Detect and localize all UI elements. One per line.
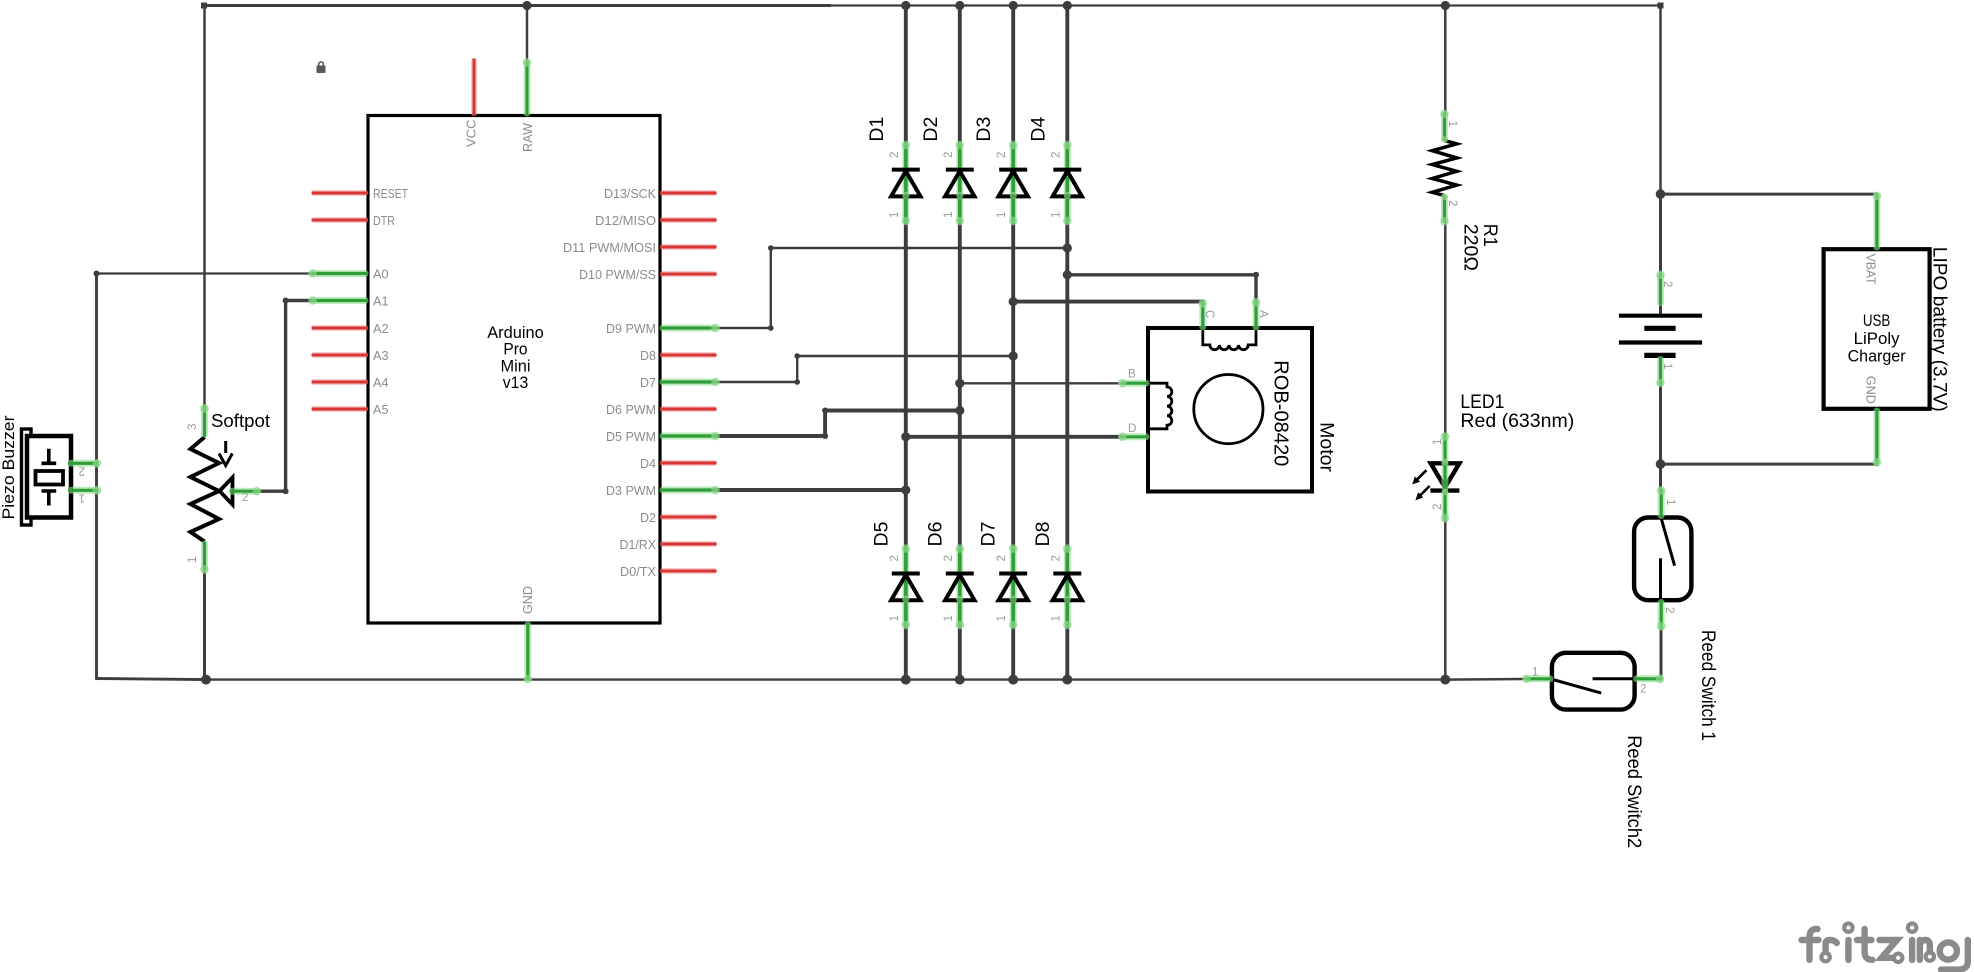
wire motor pin C from D3 column (1013, 300, 1203, 304)
svg-text:D6: D6 (924, 522, 946, 547)
junction motor C on D3 column (1009, 297, 1018, 306)
junction battery VBAT branch (1656, 189, 1666, 199)
svg-text:2: 2 (996, 555, 1008, 561)
svg-text:1: 1 (996, 212, 1008, 218)
svg-text:1: 1 (996, 615, 1008, 621)
svg-text:1: 1 (1432, 439, 1444, 445)
wire D3 PWM to D1 column (717, 488, 906, 492)
pin D5 PWM (660, 432, 720, 441)
wire bottom ground bus (206, 678, 1445, 680)
pin 1 of reed switch2 (1522, 675, 1552, 684)
junction RAW on top bus (522, 1, 531, 10)
node top-left corner (201, 3, 207, 9)
svg-text:1: 1 (889, 615, 901, 621)
svg-text:D4: D4 (640, 456, 656, 471)
pin VBAT of charger (1873, 192, 1882, 250)
junction D3 top bus (1009, 1, 1018, 10)
pin A4 (312, 379, 368, 385)
svg-text:D6 PWM: D6 PWM (606, 402, 656, 417)
wire junction down to battery pin 2 (1659, 194, 1662, 274)
svg-text:220Ω: 220Ω (1460, 224, 1482, 271)
pin D6 PWM (660, 406, 717, 412)
svg-text:A2: A2 (373, 321, 389, 336)
svg-text:VCC: VCC (464, 120, 479, 148)
wire top bus right corner down to battery (1659, 6, 1662, 195)
diode D5 (870, 521, 920, 629)
junction D2 top bus (955, 1, 964, 10)
svg-text:Reed Switch2: Reed Switch2 (1623, 735, 1645, 848)
svg-text:1: 1 (1532, 667, 1538, 679)
svg-text:2: 2 (943, 555, 955, 561)
junction D3 PWM net on D1 column (901, 485, 910, 494)
svg-text:LIPO battery (3.7V): LIPO battery (3.7V) (1929, 247, 1951, 412)
wire Softpot pin1 to ground bus (203, 571, 206, 680)
svg-text:A4: A4 (373, 375, 389, 390)
svg-text:ROB-08420: ROB-08420 (1270, 360, 1292, 466)
piezo element top electrode (42, 449, 57, 464)
pin 2 of battery (1656, 271, 1665, 305)
piezo element crystal (36, 471, 64, 485)
svg-text:A0: A0 (373, 266, 389, 281)
node D5 wire corner bottom (822, 433, 828, 439)
pin 2 of softpot (230, 487, 261, 496)
svg-text:1: 1 (1446, 121, 1458, 127)
svg-text:D13/SCK: D13/SCK (604, 186, 656, 201)
pin A0 (308, 269, 368, 278)
junction D3 bottom bus (1008, 675, 1018, 685)
node A1 wire corner lower (283, 488, 289, 494)
junction motor A on D4 column (1063, 270, 1072, 279)
pin 2 of piezo (68, 459, 101, 468)
svg-text:2: 2 (1432, 504, 1444, 510)
motor rotor circle (1194, 375, 1263, 444)
wire top power bus (204, 4, 830, 7)
wire ground junction to charger GND (1661, 463, 1877, 466)
svg-text:D0/TX: D0/TX (620, 564, 656, 579)
wire Reed Switch 1 pin 2 down to Reed Switch2 pin 2 (1660, 627, 1663, 679)
fritzing watermark letter g (1940, 942, 1957, 959)
svg-text:A3: A3 (373, 348, 389, 363)
node D9 wire corner top (768, 245, 774, 251)
svg-text:D3 PWM: D3 PWM (606, 483, 656, 498)
charger title USB LiPoly Charger (1848, 312, 1906, 366)
wire battery plus to charger VBAT (1661, 193, 1877, 196)
node D5 wire corner top (822, 408, 828, 414)
pin C of motor (1199, 299, 1208, 330)
svg-text:Charger: Charger (1848, 348, 1906, 366)
svg-text:D9 PWM: D9 PWM (606, 321, 656, 336)
pin D11 PWM/MOSI (660, 244, 717, 250)
fritzing watermark letter r (1826, 940, 1837, 952)
node D9 wire corner bottom (768, 325, 774, 331)
pin RAW (523, 58, 532, 115)
reed switch 1 blade (1661, 518, 1674, 565)
piezo buzzer PZ1 disc plate (22, 429, 32, 525)
diode D4 (1027, 117, 1082, 226)
LED1 triangle (1431, 463, 1460, 487)
wire diode D2 vertical column (958, 6, 962, 680)
svg-text:1: 1 (943, 615, 955, 621)
junction D9 net on D4 column (1063, 243, 1072, 252)
wire A1 from Softpot pin 2 (259, 301, 312, 492)
wire LED1 to ground bus (1444, 518, 1447, 680)
battery plate short upper (1644, 326, 1675, 331)
Arduino Pro Mini U1 body (368, 116, 660, 624)
LED emission arrow upper (1412, 470, 1426, 484)
wire diode D4 vertical column (1065, 6, 1069, 680)
pin D7 (660, 378, 720, 387)
svg-text:1: 1 (1050, 615, 1062, 621)
pin 1 of LED1 (1441, 432, 1450, 490)
junction D1 bottom bus (901, 675, 911, 685)
diode D2 (920, 117, 975, 226)
svg-text:D7: D7 (640, 375, 656, 390)
pin 1 of reed switch 1 (1657, 486, 1666, 517)
svg-text:1: 1 (943, 212, 955, 218)
reed switch 1 contact (1659, 558, 1662, 600)
battery plate long bottom (1619, 340, 1702, 344)
wire motor pin D from D1 column (906, 435, 1121, 439)
fritzing watermark letter i dot1 (1844, 924, 1852, 932)
fritzing watermark letter n (1920, 940, 1930, 960)
pin 1 of battery (1656, 358, 1665, 388)
svg-text:2: 2 (1050, 555, 1062, 561)
wire D5 PWM to D2 column (717, 411, 960, 437)
pin 1 of R1 (1440, 110, 1449, 143)
svg-text:D2: D2 (920, 117, 942, 142)
junction R1 on top bus (1441, 1, 1450, 10)
wire junction down to Reed Switch 1 pin 1 (1659, 464, 1662, 489)
fritzing watermark letter z (1880, 940, 1898, 958)
wire RAW drop from bus (526, 6, 529, 62)
diode D1 (866, 117, 921, 226)
svg-text:A5: A5 (373, 402, 389, 417)
junction D2 bottom bus (955, 675, 965, 685)
junction Softpot ground (201, 675, 211, 685)
svg-text:C: C (1203, 310, 1215, 318)
svg-text:2: 2 (996, 152, 1008, 158)
junction D7 net on D3 column (1009, 351, 1018, 360)
fritzing watermark letter i dot2 (1908, 924, 1916, 932)
svg-text:GND: GND (1864, 376, 1879, 404)
pin 1 of softpot (200, 542, 209, 574)
pin D8 (660, 352, 717, 358)
softpot wiper triangle (220, 478, 233, 505)
wire motor pin B from D2 column (960, 382, 1121, 384)
node D7 wire corner top (794, 353, 800, 359)
node A0 wire corner (94, 271, 100, 277)
wire battery pin 1 down to ground junction (1659, 384, 1662, 464)
diode D7 (978, 522, 1028, 630)
pin A2 (312, 325, 368, 331)
pin D1/RX (660, 541, 717, 547)
svg-text:2: 2 (1663, 607, 1675, 613)
node D7 wire corner bottom (794, 379, 800, 385)
junction battery minus / charger GND (1656, 459, 1666, 469)
wire battery pin2 stub (1659, 305, 1662, 316)
svg-text:2: 2 (242, 492, 248, 504)
svg-text:D11 PWM/MOSI: D11 PWM/MOSI (563, 240, 656, 255)
motor top coil (1203, 328, 1256, 350)
svg-text:D1: D1 (866, 117, 888, 142)
pin A5 (312, 406, 368, 412)
reed switch2 blade (1553, 680, 1602, 694)
svg-text:A: A (1257, 310, 1269, 318)
pin D4 (660, 460, 717, 466)
pin 1 of piezo (68, 486, 101, 495)
reed switch 1 body (1634, 518, 1691, 601)
node top-right corner (1658, 3, 1664, 9)
piezo element bottom electrode (42, 491, 57, 506)
svg-text:D8: D8 (1032, 522, 1054, 547)
svg-text:3: 3 (187, 424, 199, 430)
node motor A wire corner (1253, 272, 1259, 278)
pin D9 PWM (660, 324, 720, 333)
LED1 cathode bar (1430, 488, 1459, 492)
lock icon (317, 62, 326, 73)
wire piezo bottom to ground junction (97, 679, 207, 680)
svg-text:VBAT: VBAT (1864, 254, 1879, 285)
pin A of motor (1252, 298, 1261, 330)
svg-text:D10 PWM/SS: D10 PWM/SS (579, 267, 656, 282)
svg-text:Reed Switch 1: Reed Switch 1 (1697, 630, 1719, 741)
fritzing watermark letter f (1802, 929, 1819, 960)
svg-text:2: 2 (1446, 200, 1458, 206)
pin A3 (312, 352, 368, 358)
pin GND (524, 623, 533, 683)
svg-text:D7: D7 (978, 522, 1000, 547)
svg-text:D4: D4 (1027, 117, 1049, 142)
svg-text:LiPoly: LiPoly (1854, 330, 1901, 348)
fritzing watermark letter t (1857, 929, 1872, 960)
pin 2 of LED1 (1441, 489, 1450, 523)
svg-text:D: D (1128, 423, 1136, 435)
pin D10 PWM/SS (660, 271, 717, 277)
svg-text:2: 2 (1050, 152, 1062, 158)
pin D13/SCK (660, 190, 717, 196)
USB LiPoly charger U2 body (1824, 249, 1930, 409)
pin 2 of reed switch2 (1635, 675, 1665, 684)
svg-text:D5 PWM: D5 PWM (606, 429, 656, 444)
wire left vertical from bus to Softpot pin 3 (203, 6, 206, 407)
svg-text:Red (633nm): Red (633nm) (1460, 410, 1574, 432)
svg-text:1: 1 (1664, 499, 1676, 505)
svg-text:Motor: Motor (1316, 422, 1338, 472)
pin D2 (660, 514, 717, 520)
reed switch2 body (1552, 653, 1635, 710)
svg-text:2: 2 (943, 152, 955, 158)
pin D3 PWM (660, 486, 720, 495)
svg-text:RESET: RESET (373, 186, 408, 201)
svg-text:A1: A1 (373, 293, 389, 308)
svg-text:v13: v13 (503, 373, 529, 392)
svg-text:Softpot: Softpot (211, 411, 270, 431)
LED emission arrow lower (1415, 486, 1429, 500)
svg-text:1: 1 (187, 557, 199, 563)
svg-text:D5: D5 (870, 521, 892, 546)
svg-text:1: 1 (1050, 212, 1062, 218)
softpot wiper arrow (219, 441, 232, 466)
pin D12/MISO (660, 217, 717, 223)
svg-text:2: 2 (79, 465, 85, 477)
svg-text:2: 2 (889, 555, 901, 561)
svg-text:D1/RX: D1/RX (620, 537, 657, 552)
svg-text:Piezo Buzzer: Piezo Buzzer (0, 415, 18, 519)
svg-text:B: B (1128, 369, 1136, 381)
svg-text:D3: D3 (973, 117, 995, 142)
svg-text:D8: D8 (640, 348, 656, 363)
battery BT1 plate long top (1619, 314, 1702, 318)
wire motor pin A from D4 column (1067, 275, 1256, 301)
svg-text:DTR: DTR (373, 213, 395, 228)
svg-text:1: 1 (889, 212, 901, 218)
svg-text:D12/MISO: D12/MISO (595, 213, 656, 228)
svg-text:2: 2 (1640, 684, 1646, 696)
pin B of motor (1118, 379, 1148, 388)
junction D1 top bus (901, 1, 910, 10)
svg-text:GND: GND (520, 586, 535, 614)
wire D9 PWM to D4 column (717, 248, 1068, 328)
wire R1 drop from top bus (1444, 6, 1447, 114)
reed switch2 contact (1593, 677, 1635, 680)
motor M1 body ROB-08420 (1148, 328, 1312, 492)
svg-text:2: 2 (1661, 281, 1673, 287)
pin D of motor (1118, 433, 1148, 442)
wire diode D3 vertical column (1011, 6, 1015, 680)
pin VCC (471, 59, 477, 116)
pin 2 of reed switch 1 (1657, 600, 1666, 630)
resistor R1 zigzag (1432, 140, 1457, 195)
diode D8 (1032, 522, 1082, 630)
diode D3 (973, 117, 1028, 226)
junction D5 net on D2 column (955, 406, 964, 415)
wire A0 horizontal (97, 272, 312, 274)
junction D4 top bus (1063, 1, 1072, 10)
svg-text:RAW: RAW (520, 122, 535, 152)
pin 2 of R1 (1440, 193, 1449, 225)
part title Arduino Pro Mini v13 (487, 323, 544, 392)
piezo buzzer body (27, 436, 71, 518)
battery plate short lower (1644, 353, 1675, 358)
svg-text:USB: USB (1863, 312, 1891, 330)
junction LED on bottom bus (1440, 675, 1450, 685)
motor left coil (1148, 383, 1172, 429)
svg-text:1: 1 (79, 492, 85, 504)
junction motor D on D1 column (901, 432, 910, 441)
pin DTR (312, 217, 368, 223)
svg-text:D2: D2 (640, 510, 656, 525)
pin GND of charger (1873, 409, 1882, 467)
wire piezo vertical (95, 274, 98, 679)
pin D0/TX (660, 568, 717, 574)
wire ground bus to Reed Switch2 pin 1 (1445, 678, 1525, 681)
node A1 wire corner upper (283, 298, 289, 304)
pin 3 of softpot (200, 404, 209, 437)
diode D6 (924, 522, 974, 630)
junction D4 bottom bus (1062, 675, 1072, 685)
pin A1 (308, 296, 368, 305)
wire R1 to LED1 (1444, 222, 1447, 436)
wire D7 to D3 column (717, 356, 1014, 382)
softpot RV1 resistive element zigzag (191, 437, 220, 541)
junction motor B on D2 column (955, 379, 964, 388)
pin RESET (312, 190, 368, 196)
svg-text:1: 1 (1661, 363, 1673, 369)
wire diode D1 vertical column (904, 6, 908, 680)
svg-text:2: 2 (889, 152, 901, 158)
